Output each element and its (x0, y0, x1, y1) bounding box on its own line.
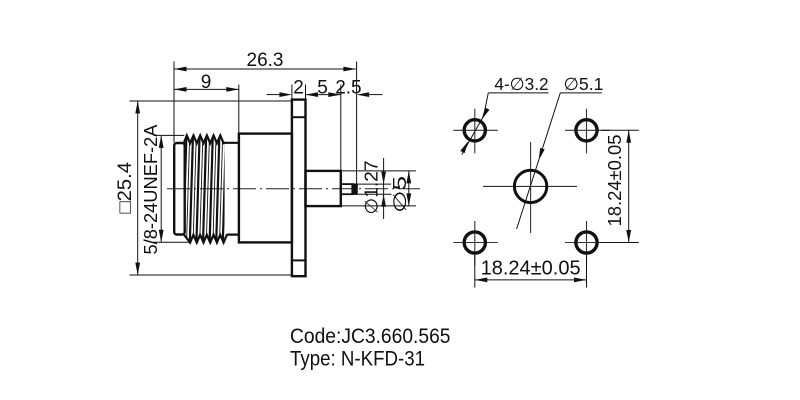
svg-text:5: 5 (317, 78, 328, 99)
mounting hole bottom-left (dia 3.2) (464, 232, 485, 253)
dim chain ext line flange-right (305, 85, 307, 100)
dim 18.24 bottom ext right (586, 256, 588, 288)
flange hole edge line bottom (292, 259, 306, 261)
svg-text:18.24±0.05: 18.24±0.05 (481, 258, 581, 280)
flange plate (side view) (292, 100, 306, 277)
dim 25.4 extension line top (130, 100, 292, 102)
mounting hole top-right centerlines (565, 129, 610, 131)
mounting hole bottom-left centerlines (453, 242, 498, 244)
dim 2 arrow+tail left (267, 94, 281, 96)
svg-text:□25.4: □25.4 (115, 162, 136, 214)
connector body (239, 134, 292, 243)
svg-text:∅5: ∅5 (390, 176, 410, 213)
svg-text:26.3: 26.3 (247, 50, 284, 71)
center hole centerlines (483, 185, 577, 187)
svg-text:Code:JC3.660.565: Code:JC3.660.565 (290, 324, 451, 348)
dim 2.5 arrow+tail right (369, 94, 383, 96)
dim chain ext line flange-left (291, 85, 293, 100)
thread dim extension line top (154, 134, 185, 136)
leader 4-dia3.2 (488, 92, 548, 94)
dim 18.24 right ext bottom (602, 242, 639, 244)
svg-text:2: 2 (293, 78, 304, 99)
svg-text:2.5: 2.5 (335, 78, 361, 99)
dim 1.27 line+arrows (383, 158, 385, 219)
insulator bushing (306, 171, 341, 206)
mounting hole top-left (dia 3.2) (464, 120, 485, 141)
center hole (dia 5.1) (514, 170, 546, 202)
mounting hole top-left centerlines (453, 129, 498, 131)
centerline (left view) (167, 188, 420, 190)
mounting hole top-right (dia 3.2) (576, 120, 597, 141)
dim 18.24 right ext top (602, 129, 639, 131)
thread profile bottom edge (184, 234, 239, 242)
dim 18.24 bottom line (475, 279, 587, 281)
dim chain ext line bushing-right (340, 85, 342, 171)
svg-text:5/8-24UNEF-2A: 5/8-24UNEF-2A (141, 125, 161, 255)
connector nut back face (174, 143, 185, 235)
svg-text:18.24±0.05: 18.24±0.05 (605, 135, 625, 227)
mounting hole bottom-right (dia 3.2) (576, 232, 597, 253)
dim 1.27 extension line bottom (358, 193, 392, 195)
svg-text:4-∅3.2: 4-∅3.2 (494, 74, 548, 94)
dim 25.4 extension line bottom (130, 274, 292, 276)
dim 5dia extension line bottom (341, 205, 416, 207)
dim 18.24 right line (628, 130, 630, 242)
dim 18.24 bottom ext left (474, 256, 476, 288)
dim 26.3 extension line left (173, 62, 175, 143)
dim 9 line (174, 88, 239, 90)
thread profile top edge (184, 135, 239, 143)
thread dim extension line bottom (154, 241, 189, 243)
svg-text:9: 9 (201, 72, 212, 93)
dim 26.3 line (174, 68, 356, 70)
dim 26.3 extension line right (356, 62, 358, 184)
dim 1.27 extension line top (358, 183, 391, 185)
solder pin tip (solid) (352, 183, 358, 195)
solder pin outline (341, 184, 353, 194)
leader dia5.1 (560, 92, 602, 94)
dim 25.4 line (137, 101, 139, 275)
mounting hole bottom-right centerlines (565, 242, 610, 244)
thread dim line (160, 135, 162, 242)
svg-text:∅5.1: ∅5.1 (564, 74, 604, 94)
flange hole edge line top (292, 116, 306, 118)
svg-text:Type: N-KFD-31: Type: N-KFD-31 (290, 346, 425, 370)
dim 9 extension line right (238, 85, 240, 134)
dim 5 line (306, 94, 341, 96)
dim 5dia extension line top (341, 170, 416, 172)
dim 5dia line (408, 171, 410, 206)
